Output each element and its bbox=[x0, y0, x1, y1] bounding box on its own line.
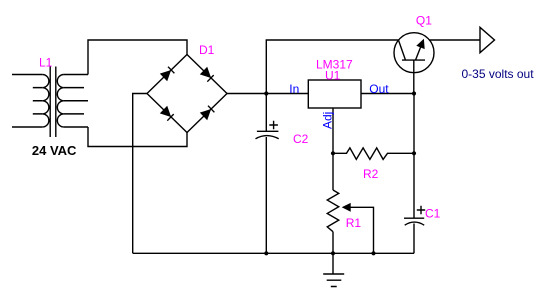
wire transformer bottom to bridge bottom vertex bbox=[88, 127, 187, 147]
bridge rectifier D1 diamond edge bottom-right bbox=[187, 94, 227, 133]
D1 diode top-left arrow bbox=[161, 67, 174, 80]
svg-text:C1: C1 bbox=[425, 207, 441, 221]
wire R1 bottom to ground rail bbox=[332, 232, 334, 254]
ground symbol bbox=[323, 253, 344, 286]
transistor Q1 collector leg bbox=[399, 41, 406, 61]
transformer L1 secondary winding tap stubs bbox=[64, 88, 88, 114]
svg-text:24 VAC: 24 VAC bbox=[32, 143, 77, 158]
svg-text:R2: R2 bbox=[363, 167, 379, 181]
capacitor C1 plus sign bbox=[417, 206, 425, 214]
transistor Q1 emitter leg with arrow bbox=[416, 40, 424, 60]
wire C1 bottom bbox=[413, 224, 415, 254]
svg-text:Adj: Adj bbox=[321, 112, 335, 129]
D1 diode bottom-left arrow bbox=[161, 107, 174, 121]
transistor Q1 base wire down bbox=[413, 60, 415, 93]
svg-text:U1: U1 bbox=[325, 68, 341, 82]
wire bridge left vertex to ground rail bbox=[133, 94, 147, 254]
junction node R2 right / output column bbox=[412, 151, 416, 155]
transformer L1 secondary lead bottom bbox=[64, 126, 88, 128]
wire output column Q1 base node down through R2 to C1 bbox=[413, 94, 415, 219]
svg-text:L1: L1 bbox=[39, 55, 53, 69]
junction node R1 bottom / ground bbox=[331, 251, 335, 255]
D1 diode top-right arrow bbox=[201, 68, 214, 82]
wire bridge right vertex to LM317 In bbox=[227, 93, 308, 95]
potentiometer R1 wiper arrow bbox=[343, 204, 373, 253]
svg-text:Q1: Q1 bbox=[416, 14, 432, 28]
wire LM317 Out to output node bbox=[361, 93, 414, 95]
junction node C2 bottom on ground rail bbox=[264, 251, 268, 255]
transformer L1 primary winding bbox=[42, 75, 49, 128]
transformer L1 left primary lead top bbox=[12, 74, 42, 76]
capacitor C2 top plate bbox=[257, 130, 279, 132]
wire Q1 emitter to output arrow bbox=[429, 39, 480, 41]
resistor R2 bbox=[333, 148, 414, 160]
bridge rectifier D1 diamond edge top-left bbox=[147, 55, 187, 94]
transformer L1 secondary lead top bbox=[64, 74, 88, 76]
capacitor C2 curved plate bbox=[256, 136, 279, 139]
bridge rectifier D1 diamond edge bottom-left bbox=[147, 94, 187, 133]
junction node Adj / R2 left bbox=[331, 151, 335, 155]
transformer L1 secondary winding bbox=[57, 75, 64, 128]
capacitor C1 top plate bbox=[404, 217, 424, 219]
capacitor C1 curved plate bbox=[405, 222, 425, 225]
svg-text:C2: C2 bbox=[293, 132, 309, 146]
junction node R1 wiper on ground rail bbox=[371, 251, 375, 255]
bridge rectifier D1 diamond edge top-right bbox=[187, 55, 227, 94]
output arrow terminal bbox=[480, 27, 495, 52]
svg-text:D1: D1 bbox=[199, 43, 215, 57]
capacitor C2 plus sign bbox=[269, 121, 278, 129]
wire C2 column upper bbox=[265, 94, 267, 132]
svg-text:In: In bbox=[289, 82, 299, 96]
svg-text:Out: Out bbox=[369, 82, 389, 96]
regulator U1 LM317 body bbox=[308, 80, 361, 108]
wire C2 column lower bbox=[265, 137, 267, 253]
svg-text:R1: R1 bbox=[346, 216, 362, 230]
transformer L1 primary winding tap stubs bbox=[33, 88, 43, 114]
wire Adj node down to potentiometer bbox=[332, 153, 334, 190]
transistor Q1 body circle bbox=[394, 33, 434, 73]
wire transformer top to bridge top vertex bbox=[88, 40, 187, 75]
junction node LM317 Out / Q1 base bbox=[412, 91, 416, 95]
wire LM317 Adj down bbox=[332, 108, 334, 154]
transformer L1 left primary lead bottom bbox=[12, 126, 42, 128]
junction node raw DC / C2 / LM317 In bbox=[264, 91, 268, 95]
potentiometer R1 resistive element bbox=[327, 190, 339, 232]
transistor Q1 base bar bbox=[402, 59, 425, 61]
transformer L1 core bbox=[50, 67, 56, 138]
wire raw DC rail up to Q1 collector bbox=[266, 40, 398, 94]
ground rail bbox=[133, 252, 414, 254]
svg-text:0-35 volts out: 0-35 volts out bbox=[462, 67, 535, 81]
D1 diode bottom-right arrow bbox=[201, 106, 214, 119]
